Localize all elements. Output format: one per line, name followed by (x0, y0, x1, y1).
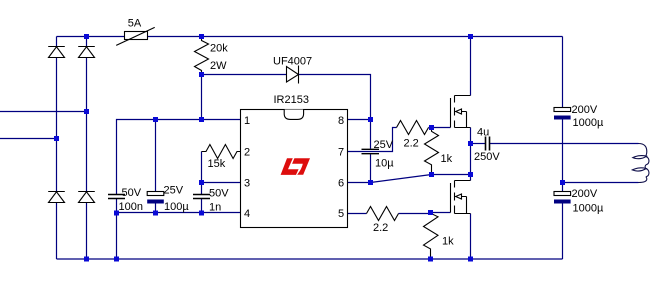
junction AC1 / column 2 (84, 109, 89, 114)
MOSFET Q1 top (451, 96, 471, 128)
junction VCC / 100u (153, 117, 158, 122)
junction bottom rail / 1k bottom (428, 257, 433, 262)
wire pin 6 to VS slanted (371, 175, 432, 183)
diode D4 bridge bottom-right (78, 192, 95, 203)
wire pin 3 lead (202, 182, 241, 184)
junction pin 8 / VB (368, 117, 373, 122)
wire AC input line 1 (0, 111, 87, 113)
svg-text:6: 6 (338, 178, 344, 190)
junction 20k bottom / UF4007 (199, 72, 204, 77)
svg-text:100µ: 100µ (164, 201, 189, 213)
svg-text:2.2: 2.2 (373, 222, 388, 234)
wire 20k to VCC (201, 75, 203, 120)
diode UF4007 (273, 56, 312, 84)
svg-text:5: 5 (338, 208, 344, 220)
resistor 1k bottom (424, 213, 455, 260)
svg-text:8: 8 (338, 115, 344, 127)
svg-text:4: 4 (244, 208, 250, 220)
wire VS node horizontal (432, 174, 471, 176)
IC U1 IR2153 (241, 94, 348, 228)
junction pin 3 / 15k / 1n (199, 180, 204, 185)
capacitor 100n 50V (108, 187, 143, 213)
wire bridge column 1 (56, 37, 58, 260)
svg-text:1000µ: 1000µ (573, 117, 604, 129)
wire lamp output line top (490, 143, 639, 145)
svg-text:3: 3 (244, 178, 250, 190)
svg-text:1000µ: 1000µ (573, 203, 604, 215)
resistor 1k top (425, 128, 453, 175)
svg-text:UF4007: UF4007 (273, 56, 312, 68)
diode D2 bridge top-right (78, 47, 95, 58)
diode D1 bridge top-left (48, 47, 65, 58)
svg-text:1: 1 (244, 115, 250, 127)
fuse 5A (116, 18, 155, 46)
wire bottom 2.2 to gate node and gate (399, 213, 451, 214)
resistor 2.2 bottom gate (367, 207, 399, 235)
wire pin 6 lead (348, 182, 371, 184)
svg-text:10µ: 10µ (375, 158, 394, 170)
junction pin 6 / VS (368, 180, 373, 185)
capacitor 1000u 200V top electrolytic (554, 104, 604, 129)
wire UF4007 cathode to VB vertical (299, 75, 371, 149)
wire VCC node to pin 1 (117, 120, 241, 195)
capacitor 1n 50V (193, 188, 229, 214)
svg-text:7: 7 (338, 147, 344, 159)
svg-text:1k: 1k (442, 236, 454, 248)
svg-text:IR2153: IR2153 (274, 94, 309, 106)
capacitor 100u 25V electrolytic (147, 185, 189, 214)
wire AC input line 2 (0, 138, 57, 140)
junction top rail / Q1 drain (468, 34, 473, 39)
junction bottom rail / 100n (114, 257, 119, 262)
wire VS node to bottom MOSFET drain (470, 175, 472, 181)
junction 4u output node (468, 141, 473, 146)
svg-text:2: 2 (244, 147, 250, 159)
diode D3 bridge bottom-left (48, 192, 65, 203)
wire 100u cap top lead (155, 120, 157, 192)
wire right rail upper segment (562, 37, 564, 108)
wire right rail mid segment (562, 120, 564, 192)
svg-text:1n: 1n (209, 202, 221, 214)
wire top 2.2 to gate node (429, 127, 451, 129)
junction gate node bottom (428, 210, 433, 215)
junction bottom rail / column 2 (84, 257, 89, 262)
junction bottom rail / Q2 source (468, 257, 473, 262)
wire VB cap to pin 6 node (370, 154, 372, 182)
resistor 15k (202, 145, 241, 171)
capacitor 1000u 200V bottom electrolytic (554, 188, 604, 215)
wire 100u cap bottom lead (155, 204, 157, 213)
wire 15k left lead down to pin 3 node (201, 152, 203, 183)
resistor 20k 2W (195, 37, 229, 75)
junction VCC / 20k branch (199, 117, 204, 122)
wire bottom MOSFET source to bottom rail (470, 214, 472, 260)
wire pin 8 lead (348, 119, 371, 121)
junction top rail / 20k (199, 34, 204, 39)
wire lamp return line bottom (563, 182, 639, 184)
svg-text:200V: 200V (572, 188, 598, 200)
wire 100n cap bottom lead (116, 199, 118, 260)
inductor lamp load coil (632, 144, 649, 183)
svg-text:25V: 25V (374, 139, 394, 151)
wire 4u node to cap (471, 143, 486, 145)
svg-text:100n: 100n (119, 201, 143, 213)
svg-text:1k: 1k (441, 153, 453, 165)
wire pin 7 lead to gate resistor (348, 128, 397, 152)
junction COM / 100u (153, 211, 158, 216)
wire pin 5 lead (348, 213, 367, 215)
resistor 2.2 top gate (397, 121, 429, 150)
capacitor 10u 25V bootstrap (362, 139, 395, 170)
wire top MOSFET drain from rail (470, 37, 472, 96)
wire rectified DC to UF4007 anode (202, 74, 287, 76)
wire bridge column 2 (86, 37, 88, 260)
MOSFET Q2 bottom (451, 181, 471, 214)
svg-text:5A: 5A (128, 18, 142, 30)
wire top MOSFET source to 4u node and VS (470, 128, 472, 175)
svg-text:2W: 2W (210, 60, 227, 72)
svg-text:50V: 50V (122, 187, 142, 199)
svg-text:20k: 20k (210, 43, 228, 55)
LT logo red (281, 158, 310, 175)
svg-text:2.2: 2.2 (404, 138, 419, 150)
capacitor 4u 250V (474, 127, 500, 164)
wire top rail (57, 36, 563, 38)
svg-text:15k: 15k (208, 158, 226, 170)
junction VS / Q1 source branch (468, 172, 473, 177)
svg-text:4u: 4u (477, 127, 489, 139)
junction COM / 100n (114, 211, 119, 216)
wire right rail lower segment (562, 204, 564, 260)
junction right rail / lamp return (560, 180, 565, 185)
svg-text:250V: 250V (474, 151, 500, 163)
wire COM line to pin 4 (117, 212, 241, 214)
wire bottom rail (57, 258, 563, 260)
junction AC2 / column 1 (54, 136, 59, 141)
junction top rail / column 2 (84, 34, 89, 39)
svg-text:25V: 25V (164, 185, 184, 197)
wire 1n cap bottom lead (201, 199, 203, 213)
junction gate node top (429, 125, 434, 130)
junction VS / 1k top (429, 172, 434, 177)
junction COM / 1n (199, 211, 204, 216)
svg-text:200V: 200V (572, 104, 598, 116)
wire 1n cap top lead (201, 183, 203, 195)
svg-text:50V: 50V (209, 188, 229, 200)
